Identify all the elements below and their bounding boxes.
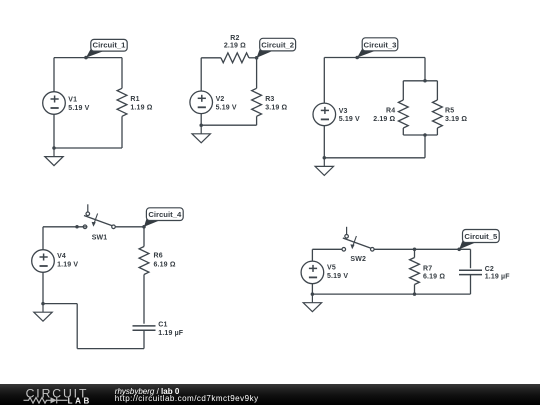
- svg-text:2.19 Ω: 2.19 Ω: [373, 116, 395, 123]
- svg-text:5.19 V: 5.19 V: [327, 273, 348, 280]
- svg-text:1.19 V: 1.19 V: [57, 262, 78, 269]
- svg-text:R4: R4: [386, 107, 395, 114]
- svg-text:V2: V2: [216, 96, 225, 103]
- svg-text:6.19 Ω: 6.19 Ω: [154, 262, 176, 269]
- svg-text:LAB: LAB: [68, 397, 92, 405]
- svg-text:5.19 V: 5.19 V: [216, 105, 237, 112]
- svg-text:SW1: SW1: [92, 235, 108, 242]
- svg-text:http://circuitlab.com/cd7kmct9: http://circuitlab.com/cd7kmct9ev9ky: [115, 394, 259, 403]
- svg-text:5.19 V: 5.19 V: [339, 116, 360, 123]
- svg-text:C1: C1: [158, 322, 167, 329]
- svg-text:Circuit_4: Circuit_4: [148, 210, 182, 219]
- svg-text:1.19 Ω: 1.19 Ω: [130, 105, 152, 112]
- svg-text:R7: R7: [423, 266, 432, 273]
- svg-text:V3: V3: [339, 108, 348, 115]
- svg-text:Circuit_2: Circuit_2: [261, 41, 294, 50]
- svg-text:5.19 V: 5.19 V: [68, 105, 89, 112]
- svg-text:Circuit_3: Circuit_3: [364, 40, 397, 49]
- svg-text:R1: R1: [130, 96, 139, 103]
- svg-text:Circuit_1: Circuit_1: [93, 41, 127, 50]
- svg-text:R5: R5: [445, 107, 454, 114]
- svg-text:1.19 µF: 1.19 µF: [485, 274, 511, 281]
- svg-text:R2: R2: [230, 35, 239, 42]
- svg-text:SW2: SW2: [350, 256, 366, 263]
- svg-text:Circuit_5: Circuit_5: [464, 232, 498, 241]
- svg-text:3.19 Ω: 3.19 Ω: [445, 116, 467, 123]
- svg-text:3.19 Ω: 3.19 Ω: [265, 104, 287, 111]
- svg-text:R6: R6: [154, 253, 163, 260]
- svg-text:2.19 Ω: 2.19 Ω: [224, 43, 246, 50]
- svg-text:V4: V4: [57, 253, 66, 260]
- svg-text:R3: R3: [265, 96, 274, 103]
- svg-text:6.19 Ω: 6.19 Ω: [423, 273, 445, 280]
- svg-text:1.19 µF: 1.19 µF: [158, 330, 184, 337]
- svg-text:V1: V1: [68, 97, 77, 104]
- svg-text:C2: C2: [485, 266, 494, 273]
- svg-text:V5: V5: [327, 265, 336, 272]
